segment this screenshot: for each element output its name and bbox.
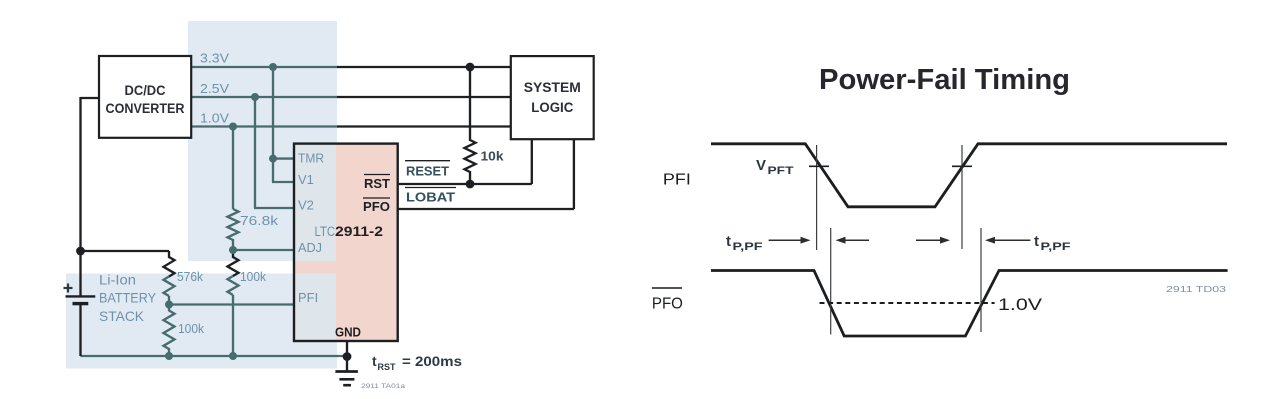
svg-text:PFO: PFO — [363, 199, 390, 214]
svg-text:DC/DC: DC/DC — [125, 83, 166, 98]
svg-text:t: t — [1034, 233, 1039, 250]
svg-text:BATTERY: BATTERY — [99, 290, 157, 306]
svg-text:PFT: PFT — [768, 165, 794, 177]
svg-text:P,PF: P,PF — [733, 241, 763, 253]
svg-text:10k: 10k — [481, 149, 505, 164]
svg-text:2.5V: 2.5V — [200, 81, 229, 96]
svg-text:t: t — [726, 233, 731, 250]
svg-text:t: t — [372, 353, 377, 369]
svg-text:RESET: RESET — [406, 164, 449, 179]
svg-text:2911-2: 2911-2 — [335, 224, 383, 239]
svg-text:V: V — [756, 157, 766, 174]
svg-text:CONVERTER: CONVERTER — [106, 101, 185, 116]
svg-text:576k: 576k — [177, 269, 203, 284]
svg-text:Li-Ion: Li-Ion — [99, 272, 136, 288]
svg-text:TMR: TMR — [298, 150, 324, 165]
svg-text:P,PF: P,PF — [1041, 241, 1071, 253]
svg-text:GND: GND — [335, 325, 361, 340]
svg-text:SYSTEM: SYSTEM — [524, 80, 581, 95]
svg-text:1.0V: 1.0V — [998, 296, 1042, 314]
svg-text:STACK: STACK — [99, 308, 145, 324]
svg-text:PFI: PFI — [663, 172, 691, 189]
svg-text:V2: V2 — [298, 198, 314, 213]
svg-text:2911 TD03: 2911 TD03 — [1166, 284, 1226, 294]
svg-text:RST: RST — [364, 176, 390, 191]
svg-text:V1: V1 — [298, 172, 314, 187]
svg-text:PFO: PFO — [652, 296, 683, 313]
svg-text:RST: RST — [378, 362, 396, 373]
svg-text:LTC: LTC — [315, 224, 336, 239]
svg-text:= 200ms: = 200ms — [402, 353, 462, 369]
svg-text:1.0V: 1.0V — [200, 111, 229, 126]
svg-text:76.8k: 76.8k — [240, 213, 279, 228]
svg-text:LOGIC: LOGIC — [531, 100, 573, 115]
svg-text:PFI: PFI — [298, 290, 318, 305]
svg-text:LOBAT: LOBAT — [406, 190, 455, 205]
svg-text:Power-Fail Timing: Power-Fail Timing — [819, 64, 1070, 96]
svg-text:100k: 100k — [178, 321, 204, 336]
svg-text:100k: 100k — [240, 269, 266, 284]
svg-text:2911 TA01a: 2911 TA01a — [361, 383, 405, 390]
svg-text:ADJ: ADJ — [298, 240, 322, 255]
svg-text:3.3V: 3.3V — [200, 51, 229, 66]
